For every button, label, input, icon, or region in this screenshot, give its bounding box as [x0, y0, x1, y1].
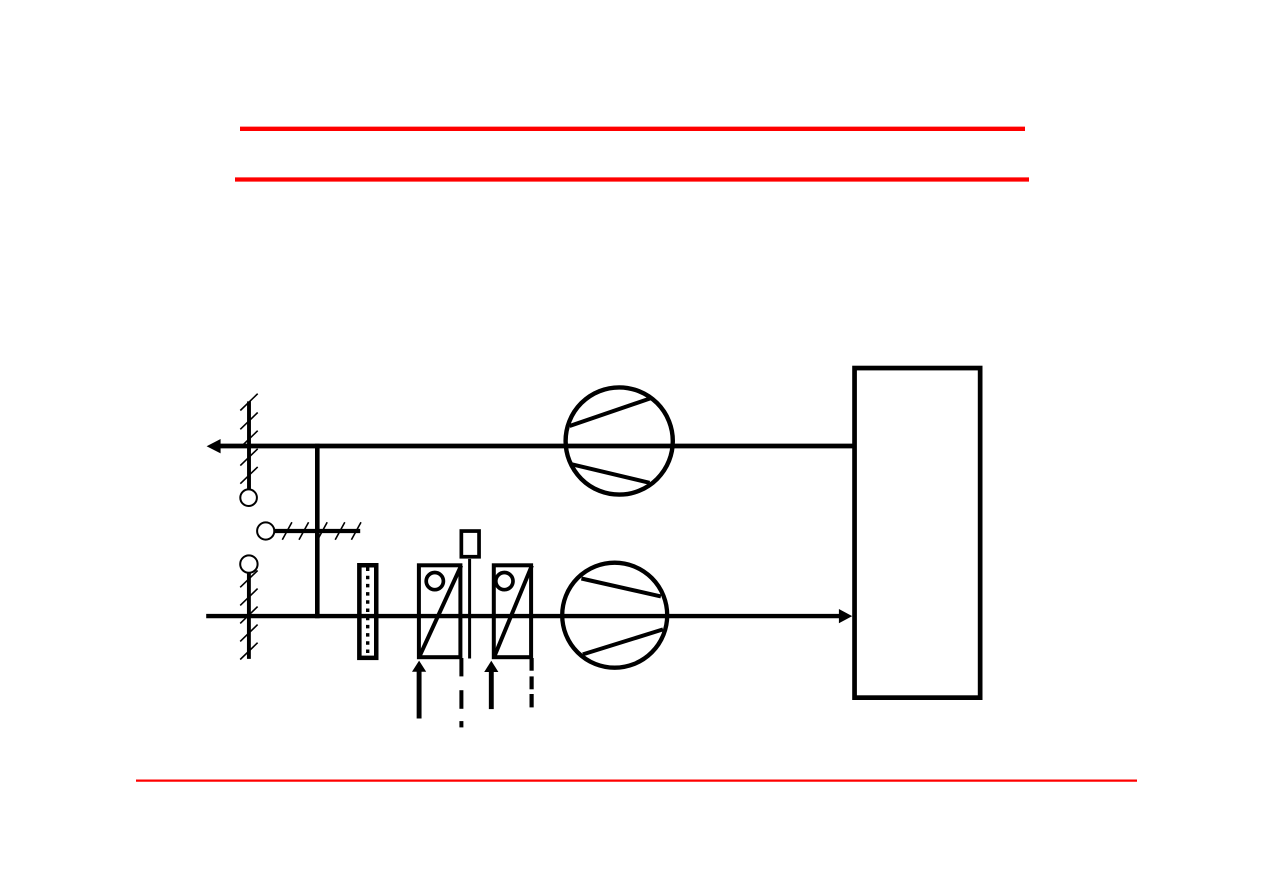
- cooling supply pipe arrow A2 head: [484, 661, 498, 672]
- heating coil HC1 body: [419, 565, 461, 657]
- cooling supply pipe arrow A2 shaft: [489, 671, 494, 709]
- damper D3 blade line: [274, 529, 360, 533]
- heating return pipe dashed: [459, 658, 463, 727]
- supply fan SF1 blade lower: [583, 629, 663, 654]
- cooling coil CC1 body: [494, 565, 531, 657]
- extract fan EF1 housing: [566, 387, 673, 494]
- filter F1 media dotted line: [366, 568, 369, 660]
- recirculation duct wire (vertical): [315, 444, 320, 619]
- supply duct wire (bottom horizontal): [206, 614, 840, 618]
- damper D1 hatch ticks: [240, 394, 257, 484]
- damper D3 (recirculation) actuator circle: [257, 522, 274, 539]
- red rule bottom: [136, 779, 1137, 781]
- supply fan SF1 blade upper: [581, 579, 661, 597]
- extract duct wire (top horizontal): [219, 444, 854, 449]
- extract duct arrowhead (left): [207, 439, 221, 453]
- damper D1 actuator circle: [240, 489, 257, 506]
- cooling return pipe dashed: [529, 658, 533, 707]
- heating supply pipe arrow A1 head: [412, 661, 426, 672]
- damper D2 blade line: [247, 574, 251, 659]
- filter F1 body: [359, 565, 376, 658]
- heating supply pipe arrow A1 shaft: [417, 671, 422, 719]
- supply duct arrowhead (into room box): [839, 609, 852, 623]
- red rule top 2: [235, 177, 1029, 181]
- damper D1 (exhaust outlet) blade line: [247, 401, 251, 489]
- room box: [855, 368, 981, 698]
- sensor T1 head: [461, 531, 479, 557]
- damper D3 hatch ticks: [282, 522, 361, 540]
- heating coil HC1 circle: [426, 573, 443, 590]
- extract fan EF1 blade lower: [570, 464, 649, 483]
- supply fan SF1 housing: [562, 563, 667, 668]
- damper D2 (fresh air inlet) actuator circle: [240, 555, 257, 572]
- cooling coil CC1 circle: [496, 573, 513, 590]
- heating coil HC1 diagonal: [419, 566, 461, 657]
- cooling coil CC1 diagonal: [494, 566, 532, 657]
- red rule top 1: [240, 127, 1025, 131]
- damper D2 hatch ticks: [240, 571, 257, 660]
- sensor T1 stem: [468, 559, 471, 659]
- extract fan EF1 blade upper: [570, 398, 651, 426]
